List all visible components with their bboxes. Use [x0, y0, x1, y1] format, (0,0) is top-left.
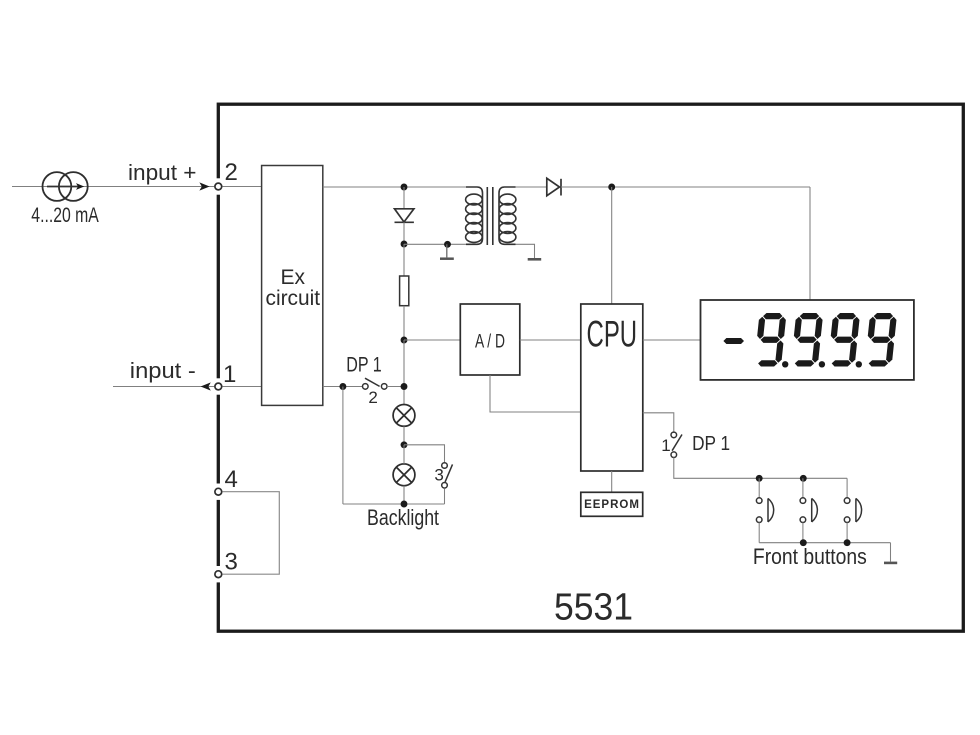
node ground left of transformer: [444, 241, 451, 248]
svg-text:3: 3: [225, 549, 238, 576]
decimal point 2: [819, 361, 825, 367]
svg-text:circuit: circuit: [266, 287, 321, 310]
arrowhead input- (pointing left): [201, 382, 211, 390]
node top of diode D1: [401, 184, 408, 191]
wire diode to corner, top bus right: [561, 186, 810, 188]
switch 3: [445, 464, 452, 482]
wire switch2 to node: [387, 386, 404, 388]
EEPROM box: [581, 492, 643, 516]
node between lamps: [401, 441, 408, 448]
push button 2: [800, 478, 817, 542]
node button2 bottom: [800, 539, 807, 546]
node CPU supply: [608, 184, 615, 191]
enclosure border 5531: [218, 104, 963, 631]
wire terminal2 to Ex circuit: [223, 186, 262, 188]
buttons bottom bus: [759, 542, 890, 544]
wire A/D to CPU: [520, 339, 581, 341]
svg-text:input +: input +: [128, 160, 197, 185]
svg-text:Backlight: Backlight: [367, 505, 439, 530]
node button2 top: [800, 475, 807, 482]
Ex circuit box: [262, 166, 323, 406]
node DP/backlight: [401, 383, 408, 390]
CPU box: [581, 304, 643, 471]
svg-text:input -: input -: [130, 358, 196, 383]
wire node to A/D: [404, 339, 460, 341]
lamp backlight 2: [393, 464, 415, 486]
wire input-: [113, 386, 214, 388]
svg-text:A / D: A / D: [475, 331, 505, 353]
svg-text:Ex: Ex: [281, 266, 306, 289]
terminal 1: [215, 378, 222, 394]
decimal point 1: [782, 361, 788, 367]
wire node to switch 3: [404, 445, 445, 463]
push button 3: [844, 478, 861, 542]
current source 4...20 mA: [43, 172, 88, 201]
display box: [701, 300, 914, 380]
svg-text:2: 2: [225, 159, 238, 186]
terminal 3: [215, 566, 222, 582]
switch 2 (DP 1): [365, 378, 380, 386]
wire lamp1 to node: [403, 426, 405, 445]
wire switch1 to buttons bus: [674, 458, 847, 479]
decimal point 3: [856, 361, 862, 367]
push button 1: [756, 478, 773, 542]
svg-text:DP 1: DP 1: [692, 433, 730, 455]
terminal 4: [215, 484, 222, 500]
svg-text:4: 4: [225, 466, 238, 493]
digit 9 #2: [791, 313, 824, 367]
ground under node: [446, 244, 448, 257]
wire CPU to DP1 switch: [643, 413, 674, 433]
wire Ex to transformer (top bus): [323, 186, 467, 188]
wire node down to backlight bus: [342, 387, 344, 505]
minus sign: [723, 338, 744, 344]
diode D1 (pointing down): [395, 187, 414, 244]
node button3 bottom: [844, 539, 851, 546]
svg-text:1: 1: [223, 361, 236, 388]
node below diode D1: [401, 241, 408, 248]
ground secondary: [528, 258, 542, 261]
node backlight return: [339, 383, 346, 390]
wire terminal1 to Ex circuit: [223, 386, 262, 388]
wire Ex bottom to switch 2: [323, 386, 362, 388]
wire node to CPU top: [611, 187, 613, 304]
svg-text:5531: 5531: [554, 587, 633, 629]
resistor R1: [403, 244, 405, 276]
wire switch3 to bus: [444, 488, 446, 504]
wire secondary bottom to ground: [516, 244, 535, 258]
svg-text:4...20 mA: 4...20 mA: [31, 204, 99, 227]
wire secondary to rectifier diode: [516, 186, 547, 188]
digit 9 #1: [754, 313, 787, 367]
wire down to display: [809, 187, 811, 300]
transformer T1 secondary winding: [499, 187, 516, 244]
svg-text:CPU: CPU: [587, 313, 638, 354]
svg-text:Front buttons: Front buttons: [753, 544, 867, 569]
node button1 top: [756, 475, 763, 482]
arrow of current source: [47, 186, 78, 188]
wire lamp2 to bus: [403, 486, 405, 504]
lamp backlight 1: [393, 405, 415, 427]
svg-text:DP 1: DP 1: [346, 353, 381, 376]
A/D box: [460, 304, 520, 375]
wire input+: [12, 186, 214, 188]
transformer T1 primary winding: [466, 187, 483, 244]
node A/D input: [401, 337, 408, 344]
backlight bottom bus: [343, 503, 445, 505]
svg-text:EEPROM: EEPROM: [584, 499, 640, 511]
wire bus to ground: [890, 543, 892, 562]
digit 9 #3: [828, 313, 861, 367]
wire CPU to EEPROM: [611, 471, 613, 493]
rectifier diode D2 (pointing right): [547, 178, 561, 195]
link bracket terminals 4-3: [223, 492, 280, 575]
transformer core: [486, 187, 488, 245]
wire CPU to display: [643, 339, 701, 341]
wire A/D bottom to CPU: [490, 375, 581, 412]
digit 9 #4: [865, 313, 898, 367]
wire node to lamp2: [403, 445, 405, 464]
svg-text:1: 1: [661, 436, 670, 455]
wire node down to DP switch row: [403, 340, 405, 405]
svg-text:3: 3: [434, 466, 443, 485]
switch 1 (DP 1): [672, 435, 682, 451]
terminal 2: [215, 178, 222, 194]
node backlight bus: [401, 501, 408, 508]
svg-text:2: 2: [368, 388, 377, 407]
ground front buttons: [884, 562, 897, 565]
arrowhead into terminal 2: [199, 182, 209, 190]
wire node to transformer bottom: [404, 243, 466, 245]
